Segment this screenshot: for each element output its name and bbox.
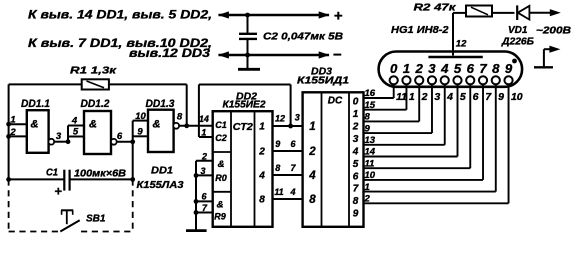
labels pins 6 10 9: [117, 111, 147, 142]
svg-text:0: 0: [353, 97, 359, 108]
svg-text:4: 4: [308, 170, 316, 182]
svg-text:HG1 ИН8-2: HG1 ИН8-2: [391, 24, 449, 36]
svg-text:100мк×6В: 100мк×6В: [74, 169, 126, 180]
pushbutton SB1: [60, 210, 79, 231]
label DD1.2: [81, 98, 110, 110]
label ~200V: [536, 26, 571, 37]
nixie tube HG1 envelope: [379, 52, 522, 87]
wire: dashed bottom left: [9, 231, 61, 233]
label DD1.3: [146, 98, 175, 110]
label VD1: [508, 25, 528, 36]
svg-text:+: +: [334, 8, 343, 25]
svg-text:&: &: [217, 200, 224, 211]
ground (common) flag to anode supply: [534, 46, 560, 68]
nixie pin numbers: [396, 91, 523, 103]
labels pins 3 4 5: [56, 116, 79, 143]
svg-text:SB1: SB1: [86, 214, 106, 225]
svg-text:8: 8: [177, 112, 183, 123]
svg-text:С1: С1: [46, 168, 58, 179]
svg-text:R9: R9: [214, 211, 226, 221]
wire: 0V rail with arrows: [218, 51, 330, 58]
net label: to pin 7 DD1, pin 10 DD2: [28, 38, 212, 50]
svg-text:12: 12: [456, 38, 467, 49]
svg-text:3: 3: [200, 166, 205, 176]
wire: +5V rail with arrows: [218, 11, 330, 18]
svg-text:6: 6: [353, 171, 359, 182]
labels DD2 left cells: [214, 120, 227, 221]
svg-text:7: 7: [353, 184, 359, 195]
svg-text:1: 1: [365, 182, 370, 193]
svg-text:&: &: [153, 119, 161, 131]
decoder DD3 body: [303, 92, 364, 227]
svg-text:3: 3: [434, 91, 440, 103]
svg-text:11: 11: [365, 158, 375, 169]
counter DD2 body: [213, 111, 273, 227]
svg-text:8: 8: [365, 112, 371, 123]
wire: dashed to SB1 right: [132, 179, 134, 231]
svg-text:10: 10: [511, 91, 523, 103]
svg-text:9: 9: [365, 123, 371, 134]
svg-text:С2 0,047мк 5В: С2 0,047мк 5В: [263, 31, 343, 43]
label DD3: [311, 65, 332, 77]
svg-text:8: 8: [492, 61, 500, 76]
svg-text:К155ЛА3: К155ЛА3: [137, 179, 184, 191]
svg-text:2: 2: [421, 91, 428, 103]
svg-text:DD1: DD1: [151, 165, 173, 177]
svg-text:~200В: ~200В: [536, 26, 571, 37]
resistor R2: [453, 6, 515, 17]
svg-text:10: 10: [365, 170, 376, 181]
label K155IE2: [223, 100, 266, 111]
svg-text:&: &: [218, 159, 225, 170]
labels: DD2-DD3 wire pins: [274, 113, 299, 198]
label K155ID1: [297, 76, 350, 87]
svg-text:5: 5: [454, 61, 462, 76]
wires: DD1.1 inputs: [6, 122, 27, 139]
svg-text:15: 15: [365, 100, 376, 111]
svg-text:9: 9: [353, 209, 359, 220]
svg-text:1: 1: [403, 61, 410, 76]
svg-text:Д226Б: Д226Б: [501, 36, 534, 47]
svg-text:К155ИЕ2: К155ИЕ2: [223, 100, 266, 111]
svg-text:2: 2: [258, 147, 265, 158]
svg-text:7: 7: [479, 61, 487, 76]
ground (common) under C2: [238, 55, 260, 69]
label HG1 IN8-2: [391, 24, 449, 36]
wire: DD2 reset pins to common: [194, 161, 213, 230]
svg-text:11: 11: [274, 187, 283, 197]
labels DD2 pins 14 and 1: [199, 114, 209, 137]
labels DD2 pins 2 3 6 7: [200, 152, 208, 214]
diode VD1: [517, 5, 550, 20]
svg-text:12: 12: [275, 114, 285, 124]
label C1 plus: [54, 184, 62, 199]
svg-text:8: 8: [275, 163, 280, 173]
node: + label: [334, 8, 343, 25]
wire: dashed bottom right: [81, 231, 133, 233]
wires: nixie cathodes to DD3 outputs: [364, 83, 509, 203]
svg-text:2: 2: [9, 127, 16, 138]
svg-text:1: 1: [10, 114, 15, 125]
svg-text:6: 6: [473, 91, 479, 103]
svg-text:4: 4: [289, 187, 295, 197]
svg-text:5: 5: [460, 91, 466, 103]
node: − label: [333, 47, 342, 64]
svg-text:К155ИД1: К155ИД1: [297, 76, 350, 87]
gate DD1.1 output bubble: [48, 139, 54, 145]
labels: DD3 output pin numbers: [364, 88, 376, 204]
svg-text:К выв. 14 DD1, выв. 5 DD2,: К выв. 14 DD1, выв. 5 DD2,: [28, 9, 212, 21]
svg-text:13: 13: [365, 135, 376, 146]
wires: DD2 outputs to DD3 inputs: [273, 124, 303, 199]
svg-text:2: 2: [308, 146, 316, 158]
capacitor C2: [239, 13, 257, 58]
svg-text:9: 9: [498, 91, 504, 103]
svg-text:3: 3: [295, 113, 300, 123]
svg-text:−: −: [333, 47, 342, 64]
svg-text:С1: С1: [215, 120, 227, 130]
labels pins 1 2: [9, 114, 16, 137]
svg-text:6: 6: [467, 61, 475, 76]
svg-text:выв.12 DD3: выв.12 DD3: [129, 48, 211, 60]
wire: DD1.1 out to DD1.2 in: [54, 126, 84, 145]
nixie anode electrode: [428, 56, 482, 58]
svg-text:R2 47к: R2 47к: [414, 2, 457, 14]
svg-text:4: 4: [352, 146, 359, 157]
svg-text:2: 2: [201, 152, 207, 162]
svg-text:DD1.2: DD1.2: [81, 98, 110, 110]
svg-text:3: 3: [353, 134, 359, 145]
svg-text:9: 9: [505, 61, 513, 76]
svg-text:4: 4: [71, 116, 78, 127]
gate DD1.1: [27, 110, 49, 153]
svg-text:&: &: [89, 119, 97, 131]
gate DD1.2 output bubble: [111, 139, 117, 145]
svg-text:0: 0: [390, 61, 398, 76]
svg-text:9: 9: [275, 139, 280, 149]
gate DD1.3 output bubble: [173, 123, 179, 129]
wire: ~200V arrow: [550, 9, 561, 16]
label anode pin 12: [456, 38, 467, 49]
wire: R1 to DD1.3 output: [109, 84, 189, 128]
label DD1.1: [21, 98, 50, 110]
svg-text:4: 4: [446, 91, 453, 103]
net label: to pin 14 DD1, pin 5 DD2: [28, 9, 212, 21]
label DC: [328, 96, 343, 107]
labels DD3 input weights: [308, 121, 316, 206]
capacitor C1: [6, 142, 135, 191]
label C1 value: [74, 169, 126, 180]
wire: dashed to SB1 left: [8, 179, 10, 231]
label R1 value: [70, 65, 117, 77]
svg-text:1: 1: [353, 109, 359, 120]
svg-text:1: 1: [409, 91, 415, 103]
svg-text:8: 8: [259, 195, 265, 206]
svg-text:С2: С2: [215, 133, 227, 143]
svg-text:1: 1: [201, 127, 206, 137]
labels DD2 output weights: [258, 122, 265, 206]
svg-text:DC: DC: [328, 96, 343, 107]
svg-text:R1 1,3к: R1 1,3к: [70, 65, 117, 77]
label D226B: [501, 36, 534, 47]
labels DD3 output digits: [352, 97, 359, 220]
svg-text:8: 8: [309, 194, 316, 206]
resistor R1: [82, 79, 109, 89]
label C1: [46, 168, 58, 179]
svg-text:10: 10: [135, 111, 146, 122]
svg-text:2: 2: [415, 61, 424, 76]
svg-text:VD1: VD1: [508, 25, 528, 36]
svg-text:5: 5: [73, 127, 79, 138]
svg-text:4: 4: [258, 171, 265, 182]
nixie cathode digits and pin seals: [390, 61, 513, 85]
wire: DD1.2 out to DD1.3 in: [117, 121, 148, 145]
ground (common) under DD2: [186, 229, 207, 232]
svg-text:3: 3: [428, 61, 436, 76]
label DD1: [151, 165, 173, 177]
label DD2: [236, 90, 257, 102]
label K155LA3: [137, 179, 184, 191]
svg-text:14: 14: [365, 147, 376, 158]
svg-text:&: &: [31, 119, 39, 131]
svg-text:16: 16: [365, 88, 376, 99]
svg-text:1: 1: [259, 122, 265, 133]
svg-text:8: 8: [353, 196, 359, 207]
wire: DD2 pin1 C2 feedback: [199, 85, 291, 138]
svg-text:9: 9: [137, 127, 143, 138]
svg-text:СТ2: СТ2: [233, 121, 253, 133]
label CT2: [233, 121, 253, 133]
svg-text:1: 1: [309, 121, 315, 133]
nixie gas indicator dot: [512, 59, 517, 64]
gate DD1.2: [84, 111, 111, 154]
svg-text:DD1.3: DD1.3: [146, 98, 175, 110]
svg-text:6: 6: [117, 131, 123, 142]
label R2 value: [414, 2, 457, 14]
wire: DD1.3 out to DD2 C1: [179, 125, 213, 127]
wire: anode feed: [452, 13, 454, 56]
gate DD1.3: [148, 110, 174, 152]
svg-text:14: 14: [199, 114, 209, 124]
svg-text:5: 5: [353, 159, 359, 170]
svg-text:DD1.1: DD1.1: [21, 98, 50, 110]
svg-text:R0: R0: [215, 173, 227, 183]
svg-text:4: 4: [440, 61, 449, 76]
svg-text:3: 3: [56, 131, 62, 142]
svg-text:11: 11: [396, 91, 407, 103]
label pin 8: [177, 112, 183, 123]
label SB1: [86, 214, 106, 225]
svg-text:+: +: [54, 184, 62, 199]
svg-text:2: 2: [352, 121, 359, 132]
net label: pin 12 DD3: [129, 48, 211, 60]
wire: left rail: [9, 84, 82, 179]
label C2 value: [263, 31, 343, 43]
